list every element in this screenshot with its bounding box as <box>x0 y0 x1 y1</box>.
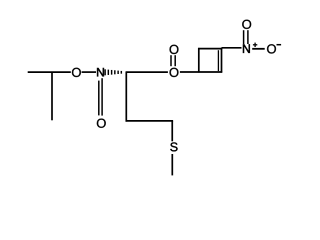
bond: C* side chain vertical <box>125 71 127 121</box>
bond: CH2-S vertical <box>171 121 173 141</box>
atom label S (thioether) <box>170 142 177 151</box>
ester C=O second line <box>170 55 172 66</box>
bond: N=O main line <box>101 78 103 115</box>
bond: ring to nitro N <box>222 47 242 49</box>
bond: O-N <box>82 71 96 73</box>
bond: side chain horizontal CH2-CH2 <box>126 120 174 122</box>
charge minus on nitro O <box>277 44 282 46</box>
ring right edge <box>221 48 223 73</box>
atom label O (double bonded below N) <box>97 119 106 128</box>
ring top edge <box>198 48 222 50</box>
bond: isopropyl CH3-CH horizontal <box>28 71 71 73</box>
ring left edge <box>198 48 200 73</box>
atom label O (nitro, negative) <box>267 44 276 53</box>
bond: S-CH3 vertical <box>171 154 173 175</box>
atom label O (ester) <box>170 68 179 77</box>
charge plus on nitro N <box>253 43 257 47</box>
atom label O (nitro, double bonded) <box>242 20 251 29</box>
nitro N=O line 1 <box>243 30 245 44</box>
bond: ester O to ring + ring bottom edge <box>180 71 222 73</box>
bond: N+ to O- <box>252 48 265 50</box>
atom label N (amine) <box>97 68 104 76</box>
hashed wedge bond N to C* <box>104 69 122 75</box>
bond: C* to ester O <box>126 71 168 73</box>
bond: isopropyl CH-CH3 vertical <box>51 72 53 120</box>
atom label O (carbonyl) <box>170 45 179 54</box>
bond: N=O second line <box>98 81 100 116</box>
atom label O (ether) <box>72 68 81 77</box>
ester C=O main line <box>174 55 176 66</box>
nitro N=O line 2 <box>247 30 249 44</box>
atom label N (nitro) <box>243 44 250 52</box>
ring inner double bond line <box>217 50 219 71</box>
